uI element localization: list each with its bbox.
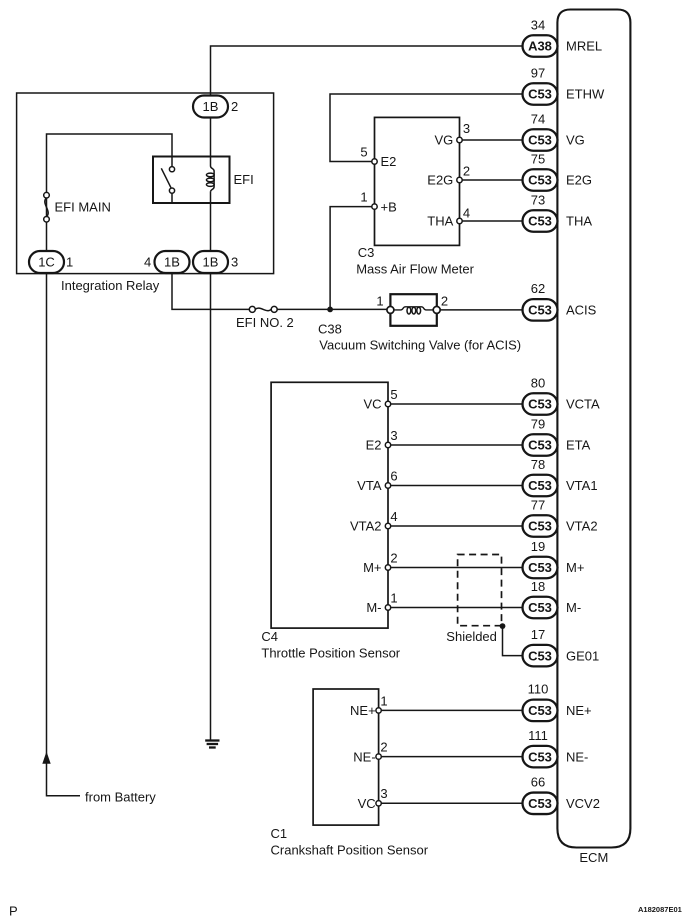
svg-text:Shielded: Shielded [446, 629, 497, 644]
shield box (dashed) [458, 555, 502, 626]
svg-text:VTA2: VTA2 [350, 519, 382, 534]
svg-text:C53: C53 [528, 749, 552, 764]
connector C53 pin17 GE01 [523, 627, 600, 666]
integration relay box [17, 93, 274, 274]
ECM block outline [557, 10, 630, 848]
wire VSV to ACIS [440, 309, 522, 311]
svg-text:2: 2 [463, 164, 470, 179]
connector C53 pin79 ETA [523, 416, 591, 455]
wire fuse to VSV [277, 308, 390, 310]
svg-text:17: 17 [531, 627, 545, 642]
meter C3 Mass Air Flow box [375, 117, 460, 245]
svg-text:C53: C53 [528, 173, 552, 188]
svg-text:M-: M- [366, 600, 381, 615]
svg-text:62: 62 [531, 281, 545, 296]
svg-text:THA: THA [427, 214, 453, 229]
wire shield to GE01 [503, 626, 523, 656]
svg-text:Integration Relay: Integration Relay [61, 278, 160, 293]
svg-text:P: P [9, 904, 18, 919]
wire ground leg [210, 273, 212, 740]
pin 3 VG of MAF [435, 121, 523, 148]
svg-text:C53: C53 [528, 133, 552, 148]
wire EFI MAIN branch [47, 134, 173, 251]
pin 1 NE+ of C1 [350, 693, 522, 718]
svg-text:C53: C53 [528, 703, 552, 718]
svg-text:5: 5 [390, 387, 397, 402]
pin 4 THA of MAF [427, 206, 522, 229]
wire EFI NO.2 net [172, 273, 249, 309]
svg-text:C1: C1 [271, 826, 288, 841]
svg-text:ACIS: ACIS [566, 303, 597, 318]
svg-text:VC: VC [358, 796, 376, 811]
svg-text:2: 2 [390, 551, 397, 566]
fuse EFI MAIN [44, 192, 50, 222]
pin 5 E2 of MAF [360, 144, 396, 169]
svg-text:ETA: ETA [566, 438, 591, 453]
ground symbol [205, 741, 219, 748]
connector 1B pin3 [193, 251, 238, 273]
svg-text:ETHW: ETHW [566, 87, 605, 102]
wire MREL net [211, 46, 523, 95]
valve VSV C38 body [376, 293, 448, 326]
svg-text:Vacuum Switching Valve (for AC: Vacuum Switching Valve (for ACIS) [319, 338, 521, 353]
connector 1B pin4 [144, 251, 190, 273]
wire +B branch [330, 207, 372, 310]
connector 1C pin1 [29, 251, 73, 273]
connector C53 pin75 E2G [523, 151, 593, 190]
svg-text:EFI NO. 2: EFI NO. 2 [236, 315, 294, 330]
svg-text:VTA1: VTA1 [566, 478, 598, 493]
svg-text:3: 3 [390, 428, 397, 443]
svg-text:C4: C4 [261, 629, 278, 644]
relay coil [206, 117, 214, 251]
svg-text:Mass Air Flow Meter: Mass Air Flow Meter [356, 262, 474, 277]
svg-text:C53: C53 [528, 796, 552, 811]
connector C53 pin73 THA [523, 192, 593, 231]
pin 4 VTA2 of TPS [350, 509, 523, 534]
svg-text:1B: 1B [203, 255, 219, 270]
svg-text:VC: VC [363, 397, 381, 412]
svg-text:3: 3 [380, 786, 387, 801]
svg-text:M+: M+ [363, 560, 381, 575]
pin 3 VC of C1 [358, 786, 523, 811]
svg-text:VG: VG [566, 133, 585, 148]
sensor C4 Throttle Position box [271, 382, 388, 628]
svg-text:NE-: NE- [566, 749, 588, 764]
pin 2 M+ of TPS [363, 551, 522, 576]
svg-text:EFI: EFI [234, 172, 254, 187]
svg-text:4: 4 [463, 206, 470, 221]
connector C53 pin66 VCV2 [523, 775, 600, 814]
svg-text:E2G: E2G [566, 173, 592, 188]
pin 5 VC of TPS [363, 387, 522, 412]
svg-text:M+: M+ [566, 560, 584, 575]
pin 2 E2G of MAF [427, 164, 522, 188]
svg-text:C53: C53 [528, 438, 552, 453]
svg-text:1C: 1C [38, 255, 55, 270]
wire from battery [47, 273, 81, 796]
svg-text:C53: C53 [528, 214, 552, 229]
connector C53 pin80 VCTA [523, 375, 601, 414]
arrowhead battery feed [42, 752, 50, 764]
svg-text:C53: C53 [528, 600, 552, 615]
svg-text:Throttle Position Sensor: Throttle Position Sensor [261, 646, 400, 661]
svg-text:VCTA: VCTA [566, 397, 600, 412]
svg-text:+B: +B [381, 199, 397, 214]
svg-text:1B: 1B [203, 99, 219, 114]
relay EFI box [153, 157, 230, 204]
svg-text:74: 74 [531, 111, 545, 126]
svg-text:66: 66 [531, 775, 545, 790]
svg-text:4: 4 [390, 509, 397, 524]
pin 1 M- of TPS [366, 591, 522, 616]
svg-text:C38: C38 [318, 322, 342, 337]
junction C38 node [327, 307, 333, 313]
svg-text:from Battery: from Battery [85, 790, 156, 805]
svg-text:VCV2: VCV2 [566, 796, 600, 811]
svg-text:1B: 1B [164, 255, 180, 270]
wire ETHW net [330, 94, 523, 162]
svg-text:M-: M- [566, 600, 581, 615]
svg-text:C53: C53 [528, 397, 552, 412]
svg-text:1: 1 [390, 591, 397, 606]
svg-text:VTA2: VTA2 [566, 519, 598, 534]
svg-text:THA: THA [566, 214, 592, 229]
svg-text:3: 3 [231, 255, 238, 270]
svg-text:A38: A38 [528, 39, 552, 54]
svg-text:73: 73 [531, 192, 545, 207]
svg-text:2: 2 [231, 99, 238, 114]
connector C53 pin111 NE- [523, 728, 589, 767]
sensor C1 Crankshaft Position box [313, 689, 379, 825]
svg-text:NE+: NE+ [350, 703, 376, 718]
connector C53 pin19 M+ [523, 539, 585, 578]
pin 2 NE- of C1 [353, 739, 522, 764]
connector C53 pin78 VTA1 [523, 457, 598, 496]
svg-text:1: 1 [380, 693, 387, 708]
junction shield node [500, 623, 506, 629]
svg-text:80: 80 [531, 375, 545, 390]
svg-text:6: 6 [390, 469, 397, 484]
svg-text:ECM: ECM [579, 850, 608, 865]
svg-text:C53: C53 [528, 87, 552, 102]
svg-text:2: 2 [380, 739, 387, 754]
svg-text:VG: VG [435, 133, 454, 148]
connector C53 pin77 VTA2 [523, 497, 598, 536]
svg-text:C53: C53 [528, 519, 552, 534]
pin 1 +B of MAF [360, 189, 396, 214]
connector C53 pin62 ACIS [523, 281, 597, 320]
svg-text:34: 34 [531, 17, 545, 32]
svg-text:E2: E2 [381, 154, 397, 169]
svg-text:18: 18 [531, 579, 545, 594]
connector C53 pin74 VG [523, 111, 585, 150]
svg-text:78: 78 [531, 457, 545, 472]
svg-text:VTA: VTA [357, 478, 382, 493]
svg-text:110: 110 [528, 682, 549, 697]
pin 6 VTA of TPS [357, 469, 522, 494]
svg-text:111: 111 [528, 728, 548, 743]
ECM connector pills [523, 17, 606, 814]
svg-text:E2G: E2G [427, 173, 453, 188]
connector A38 pin34 MREL [523, 17, 603, 56]
fuse EFI NO.2 [249, 306, 277, 312]
connector 1B pin2 (top of relay) [193, 96, 238, 118]
pin 3 E2 of TPS [366, 428, 523, 453]
svg-text:1: 1 [360, 189, 367, 204]
svg-text:1: 1 [376, 293, 383, 308]
connector C53 pin18 M- [523, 579, 582, 618]
svg-text:2: 2 [441, 293, 448, 308]
svg-text:97: 97 [531, 65, 545, 80]
svg-text:C53: C53 [528, 560, 552, 575]
svg-text:A182087E01: A182087E01 [638, 905, 682, 914]
svg-text:EFI MAIN: EFI MAIN [55, 200, 111, 215]
svg-text:NE-: NE- [353, 749, 375, 764]
svg-text:5: 5 [360, 144, 367, 159]
svg-text:1: 1 [66, 255, 73, 270]
svg-text:MREL: MREL [566, 39, 602, 54]
svg-text:Crankshaft Position Sensor: Crankshaft Position Sensor [271, 843, 429, 858]
svg-text:C53: C53 [528, 303, 552, 318]
svg-text:NE+: NE+ [566, 703, 592, 718]
svg-text:C3: C3 [358, 245, 375, 260]
svg-text:3: 3 [463, 121, 470, 136]
svg-text:4: 4 [144, 255, 151, 270]
svg-text:79: 79 [531, 416, 545, 431]
svg-text:E2: E2 [366, 438, 382, 453]
relay switch contact [161, 157, 174, 204]
svg-text:77: 77 [531, 497, 545, 512]
connector C53 pin110 NE+ [523, 682, 592, 721]
svg-text:75: 75 [531, 151, 545, 166]
connector C53 pin97 ETHW [523, 65, 606, 104]
svg-text:19: 19 [531, 539, 545, 554]
svg-text:C53: C53 [528, 648, 552, 663]
svg-text:GE01: GE01 [566, 648, 599, 663]
svg-text:C53: C53 [528, 478, 552, 493]
